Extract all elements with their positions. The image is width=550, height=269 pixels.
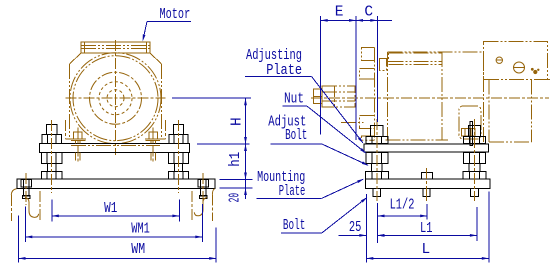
slide base end flange (phantom) [341, 122, 364, 124]
mounting plate (front view) [17, 179, 215, 189]
svg-text:Bolt: Bolt [285, 127, 307, 144]
adjusting plate (side view) [364, 144, 489, 152]
side view motor body outline [386, 52, 484, 144]
svg-text:L1/2: L1/2 [390, 197, 415, 213]
motor centerline vertical [115, 40, 117, 155]
dimension text E [335, 4, 344, 20]
terminal box gland detail 1 [496, 57, 502, 63]
side view fan cowl [489, 80, 532, 143]
svg-text:WM: WM [131, 241, 145, 258]
dimension 25 [339, 194, 390, 263]
motor front feet [65, 120, 165, 140]
svg-text:L: L [422, 242, 431, 258]
motor centerline horizontal [66, 97, 166, 99]
svg-text:C: C [364, 4, 373, 20]
svg-text:L1: L1 [420, 219, 432, 236]
foundation bolt right (front view) [198, 173, 209, 205]
dimension text C [364, 4, 373, 20]
svg-text:20: 20 [226, 193, 243, 202]
svg-text:WM1: WM1 [131, 221, 149, 237]
svg-text:E: E [335, 4, 344, 20]
mounting plate (side view) [366, 179, 491, 189]
base channel rail left (phantom) [11, 189, 40, 221]
dimension E C extension lines [321, 16, 378, 140]
svg-text:W1: W1 [104, 199, 117, 216]
dimension text H [230, 117, 246, 126]
label Motor [143, 6, 191, 41]
side view foot bolt pin [470, 122, 473, 146]
label Adjusting Plate [245, 48, 363, 144]
side view terminal box [484, 42, 550, 80]
adjust bolt left (front view) [42, 120, 62, 193]
svg-text:Plate: Plate [266, 62, 302, 78]
svg-text:Plate: Plate [279, 183, 305, 200]
side view foot bolt (phantom) [462, 129, 476, 137]
terminal box gland detail 3 [531, 68, 540, 74]
dimension W1 [52, 199, 180, 221]
foundation bolt left (front view) [21, 173, 32, 205]
motor front view: inner circles [90, 72, 142, 124]
svg-text:H: H [230, 117, 246, 126]
side view motor centerline [311, 97, 549, 99]
dimension WM1 [25, 204, 202, 242]
dimension text 20 [226, 193, 243, 202]
horizontal adjust screw and nut block (phantom) [313, 86, 355, 107]
adjust bolt left (side view) [365, 119, 388, 201]
motor hold-down bolt right (front view) [149, 128, 157, 163]
dimension line E C [321, 19, 392, 22]
svg-text:Motor: Motor [160, 6, 191, 22]
svg-text:h1: h1 [228, 152, 244, 167]
svg-text:Bolt: Bolt [283, 217, 305, 234]
motor front body outline [70, 53, 162, 137]
motor hold-down bolt left (front view) [74, 128, 82, 163]
label Mounting Plate [256, 169, 364, 200]
svg-text:Nut: Nut [284, 90, 304, 107]
dimension text h1 [228, 152, 244, 167]
dimension extension line motor center [172, 97, 251, 99]
side view motor foot [459, 106, 481, 139]
motor base slot phantom line [71, 144, 160, 146]
dimension WM [19, 216, 217, 263]
adjusting plate (front view) [40, 144, 190, 153]
dimension extension line mounting plate bottom [220, 187, 253, 189]
side view bearing boss [380, 59, 387, 71]
middle bolt (side view) [421, 168, 432, 201]
terminal box gland detail 2 [514, 62, 525, 73]
motor terminal cover (top cap) [81, 42, 150, 53]
dimension L [366, 192, 489, 263]
dimension line H h1 20 [244, 98, 247, 199]
svg-text:25: 25 [349, 218, 361, 235]
adjust bolt right (front view) [168, 120, 188, 193]
dimension extension line adjusting plate top [197, 143, 250, 145]
base channel rail right (phantom) [192, 189, 215, 221]
dimension L1/2 [378, 197, 428, 219]
dimension L1 [378, 207, 477, 241]
label Nut [282, 90, 366, 154]
dimension extension line mounting plate top [220, 179, 253, 181]
side view motor flange steps [360, 48, 375, 141]
adjust bolt right (side view) [463, 119, 486, 201]
motor front view: outer frame circles [70, 53, 161, 144]
label Adjust Bolt [268, 113, 368, 165]
side view motor top fin band [389, 53, 442, 65]
label Bolt [281, 197, 368, 234]
